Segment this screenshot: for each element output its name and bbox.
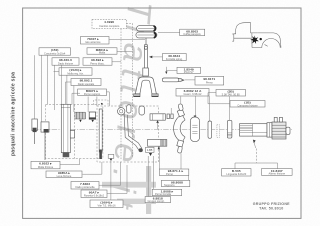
tiny label with arrow: [146, 147, 155, 156]
arrowhead to push rod from B11: [149, 56, 152, 59]
arrow below spring: [79, 120, 82, 122]
dust boot part (two rolled rings): [136, 26, 157, 38]
part: release lever with eye: [118, 108, 143, 153]
part: spacer cylinder upper: [150, 114, 165, 120]
up arrow under splined bush: [158, 147, 160, 150]
arrow pointing to shaft from below: [254, 142, 256, 148]
svg-text:Cuffia parapolv.: Cuffia parapolv.: [183, 32, 201, 36]
dashed leader from B1: [121, 24, 133, 161]
leader lines from left boxes down to parts: [35, 55, 97, 122]
callout box B17 molla frizione: [31, 161, 60, 169]
leader above top bolt: [180, 97, 182, 104]
arrowhead of B12 flag: [165, 72, 167, 75]
svg-text:Perno forcella: Perno forcella: [155, 192, 172, 196]
part: hub: [227, 120, 232, 138]
small dashed cap enclosure above nut: [94, 100, 109, 105]
svg-text:4.0990: 4.0990: [104, 20, 114, 24]
leaders bottom-right: [256, 149, 258, 164]
part: clutch lever P3: [61, 104, 74, 157]
svg-text:Dado speciale: Dado speciale: [78, 82, 95, 86]
part: washers pair: [167, 114, 173, 119]
part: coil spring: [75, 112, 85, 119]
callout box B8 dado speciale: [71, 79, 101, 86]
svg-text:Molla reg. friz.: Molla reg. friz.: [67, 71, 84, 75]
junction dot: [101, 103, 103, 105]
callout box B23 supporto: [161, 180, 189, 187]
callout box B18 leva frizione: [46, 171, 82, 178]
part: washer (thin, dashed look): [217, 125, 220, 138]
svg-text:Perno blocc.: Perno blocc.: [90, 61, 105, 65]
leader from B2 to bearing cap: [109, 39, 145, 41]
svg-text:Perno: Perno: [206, 81, 213, 85]
callout box B13 perno: [195, 76, 224, 85]
svg-text:Linguetta 6x6x20: Linguetta 6x6x20: [226, 172, 246, 176]
callout box B6 perno: [83, 58, 112, 66]
part: bell cup: [190, 116, 199, 142]
svg-text:Forcella sping.: Forcella sping.: [166, 57, 183, 61]
callout box B15 rif tav: [216, 90, 246, 97]
svg-text:Cambio completo: Cambio completo: [99, 24, 120, 28]
svg-text:GRUPPO FRIZIONE: GRUPPO FRIZIONE: [253, 202, 290, 206]
callout box B22 perno: [159, 169, 189, 176]
leader from B7: [54, 71, 60, 73]
svg-text:Campana frizione: Campana frizione: [237, 103, 258, 107]
leader from B11 to push rod: [150, 56, 163, 58]
watermark large t glyph (cross bars): [146, 166, 151, 214]
svg-text:25x47x7: 25x47x7: [184, 70, 194, 74]
callout box B10 cuffia parapolvere: [180, 29, 205, 36]
svg-text:Dado portamolla: Dado portamolla: [75, 185, 95, 189]
callout box B20 rosetta: [81, 190, 107, 198]
callout box B2 78407: [81, 37, 110, 45]
part: clevis pin horizontal: [162, 78, 184, 82]
yoke bottom end block: [177, 140, 184, 147]
arrow below U bracket: [91, 120, 94, 122]
leader from B6: [112, 61, 121, 63]
part: small pin capsule A: [127, 105, 131, 113]
leader from B10 to dust boot: [158, 31, 180, 33]
leader above washers: [170, 108, 172, 114]
yoke bottom bolt: [177, 146, 182, 153]
part: U bracket nut: [89, 112, 95, 119]
callout box B25 gruppo completo: [145, 197, 170, 204]
part: small bolt capsule P1: [32, 119, 37, 144]
svg-text:Supporto: Supporto: [164, 183, 175, 187]
yoke top end block: [177, 109, 184, 117]
part: small pin capsule B: [139, 106, 145, 115]
page frame border: [23, 8, 301, 218]
svg-text:Vite T.E. M6x16: Vite T.E. M6x16: [97, 204, 116, 208]
callout box B16 campana frizione: [230, 101, 265, 108]
svg-text:Dado frizione: Dado frizione: [58, 61, 74, 65]
part: horseshoe yoke: [174, 114, 186, 142]
part: clutch disc: [208, 121, 212, 138]
callout box B9 perno registro: [78, 89, 107, 96]
callout box B11 forcella spingidisco: [163, 54, 187, 61]
svg-text:lato anteriore: lato anteriore: [85, 40, 101, 44]
callout box B24 perno forcella: [152, 189, 182, 196]
svg-text:TAV. 50.8010: TAV. 50.8010: [259, 207, 283, 211]
svg-text:Perno registro: Perno registro: [84, 92, 101, 96]
leader from B4: [117, 50, 133, 52]
svg-text:1.B5: 1.B5: [147, 148, 153, 152]
callout box B26 linguetta: [222, 169, 251, 177]
callout box B3 cuscinetto: [39, 48, 71, 56]
svg-text:Perno: Perno: [166, 172, 173, 176]
leaders for B14 B15 B16 to bell, disc and hub: [195, 93, 230, 121]
callout box B4 molla: [87, 48, 117, 55]
mini label with arrow for B21 vite: [108, 154, 114, 200]
dashed enclosure rect center: [97, 106, 159, 162]
up arrow under spacer cylinder: [157, 123, 159, 130]
svg-text:3.08 TAV. 50.80: 3.08 TAV. 50.80: [222, 92, 241, 96]
leader from B9 down right side: [107, 92, 110, 106]
svg-text:Guarn. 6.95x12: Guarn. 6.95x12: [184, 92, 202, 96]
push rod with eye: [144, 38, 147, 68]
part: clutch shaft: [240, 117, 291, 139]
callout box B12 25x47: [177, 67, 201, 74]
tractor silhouette (top right): [232, 23, 281, 48]
svg-text:Cuscinetto 3x10x4: Cuscinetto 3x10x4: [44, 51, 66, 55]
release fork part: [134, 68, 159, 97]
horizontal centerline: [33, 128, 292, 130]
dashed divider inside left enclosure: [74, 105, 76, 159]
callout box B7 molla registro: [59, 68, 92, 76]
callout box B5 dado frizione: [52, 58, 79, 66]
leader from B13 to clevis pin: [185, 79, 196, 81]
dashed enclosure rect left: [46, 105, 103, 159]
dashed reference box B1: gruppo cambio completo: [92, 19, 127, 28]
leaders bottom-center: [148, 146, 188, 196]
callout box B21 vite: [90, 200, 123, 208]
part: splined bush cylinder: [148, 140, 167, 147]
leader from B12 with flag: [166, 67, 177, 72]
svg-text:98.8171: 98.8171: [203, 77, 215, 81]
svg-text:Molla: Molla: [99, 51, 106, 55]
clutch position star marker on tractor: [250, 35, 262, 44]
callout box B19 dado portamolla: [71, 182, 99, 190]
svg-text:Albero frizione: Albero frizione: [269, 172, 286, 176]
yoke top bolt: [178, 104, 183, 111]
leaders bottom-left cascade: [60, 159, 127, 194]
callout box B27 albero frizione: [262, 169, 293, 176]
svg-text:Gruppo compl.: Gruppo compl.: [148, 199, 165, 203]
svg-text:Leva frizione: Leva frizione: [57, 174, 72, 178]
svg-text:Rosetta 6.6x18x2: Rosetta 6.6x18x2: [84, 194, 105, 198]
part: thin pedal rod: [99, 109, 102, 159]
part: adjuster rod P2: [41, 122, 49, 160]
svg-text:Molla frizione: Molla frizione: [38, 165, 54, 169]
callout box B14 guarnizione: [176, 89, 209, 97]
svg-text:pasquali macchine agricole: pasquali macchine agricole spa: [11, 72, 17, 156]
